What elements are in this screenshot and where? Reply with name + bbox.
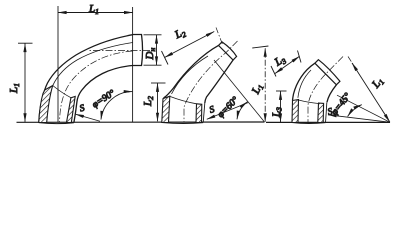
elbow3 wall inner line — [298, 70, 311, 98]
elbow2 radial line from vertex — [214, 60, 265, 122]
svg-text:L1: L1 — [8, 83, 21, 94]
elbow3 centerline dash-dot — [308, 57, 343, 123]
svg-text:L3: L3 — [271, 107, 284, 118]
elbow1 bottom face curve — [39, 123, 74, 124]
dimension L3 slant: left tick — [271, 66, 276, 77]
dimension L2 vertical line with arrows — [157, 83, 159, 121]
elbow3 S leader — [328, 115, 390, 123]
dimension L1 elbow2: top tick — [252, 46, 268, 48]
dimension L1 elbow3 line with arrows — [352, 63, 390, 122]
elbow1 inner arc — [74, 66, 133, 123]
elbow3 bore inner edge line — [326, 103, 327, 123]
elbow3 left wall band (hatched) — [292, 100, 299, 123]
elbow3 end face band — [315, 60, 340, 85]
dimension L1 left: line with arrows — [24, 44, 26, 122]
dimension L1 top: line and arrows — [58, 12, 133, 14]
svg-text:L1: L1 — [88, 3, 99, 16]
dimension D_H line with arrows — [156, 35, 158, 65]
elbow2 wall inner line — [172, 56, 209, 94]
elbow2 bottom face curve — [162, 122, 203, 125]
elbow2 outer arc — [164, 45, 219, 98]
baseline (bottom face plane extension, elbow 1+2) — [17, 121, 265, 123]
elbow2 left wall band (hatched) — [162, 96, 170, 122]
svg-text:L3: L3 — [272, 53, 288, 70]
elbow2 centerline dash-dot — [184, 41, 238, 122]
elbow1 angle arc (phi=90) with arrows — [101, 92, 132, 120]
svg-text:S: S — [208, 105, 216, 116]
elbow3 right wall band (hatched) — [318, 103, 324, 123]
dimension L3 slant line with arrows — [275, 56, 300, 73]
elbow3 cut back edge — [299, 100, 319, 104]
dimension L2 vertical: top tick — [151, 82, 166, 84]
dimension L2 slant: right tick (dash-dot) — [216, 28, 223, 46]
elbow1 wall inner line (thin arc near outer) — [53, 43, 133, 86]
elbow1 cut back edge across bore — [53, 86, 71, 98]
dimension L3 slant: right tick — [298, 51, 302, 63]
vertical extension line right end (x=132.6) — [132, 7, 134, 122]
dimension L3 vertical line with arrows — [280, 91, 282, 122]
elbow1 left wall band (hatched) — [39, 86, 53, 123]
svg-text:φ=90°: φ=90° — [90, 88, 117, 111]
svg-text:L2: L2 — [142, 96, 155, 107]
svg-text:L1: L1 — [249, 82, 265, 97]
elbow3 radial line from vertex — [337, 95, 390, 122]
elbow2 inner arc — [205, 60, 233, 103]
dimension L3 vertical: top tick — [276, 90, 287, 92]
elbow1 right end face rectangle — [133, 35, 143, 66]
dimension L1 elbow2 line with arrows — [264, 48, 266, 122]
elbow2 cut back edge — [170, 96, 197, 104]
elbow1 outer arc — [39, 35, 133, 123]
svg-text:L1: L1 — [369, 75, 386, 92]
svg-text:S: S — [79, 103, 86, 114]
svg-text:L2: L2 — [172, 26, 188, 43]
dimension L2 slant: left tick — [162, 51, 169, 65]
dimension L2 slant line with arrows — [165, 32, 215, 58]
dimension D_H: extension ticks — [144, 34, 162, 36]
elbow1 centerline dash-dot arc — [88, 50, 150, 52]
elbow1 S leader — [75, 114, 100, 121]
baseline elbow 3 — [266, 121, 390, 123]
elbow3 bottom face curve — [292, 122, 326, 125]
elbow1 right wall band (hatched) — [67, 96, 76, 122]
dimension L1 left: top tick — [18, 42, 33, 44]
elbow2 angle arc with arrows — [237, 102, 247, 120]
elbow3 inner arc — [327, 85, 337, 103]
dimension L1 elbow3: top tick (dash-dot) — [348, 57, 357, 70]
elbow3 angle arc with arrows — [348, 105, 362, 117]
vertical extension line through elbow 1 (x=58) — [57, 6, 59, 122]
elbow2 right wall band (hatched) — [196, 104, 202, 123]
svg-text:Dн: Dн — [144, 48, 157, 61]
elbow2 S leader — [207, 103, 248, 120]
elbow3 outer arc — [293, 63, 315, 100]
elbow2 bore inner edge line — [203, 103, 205, 123]
elbow2 end face band — [219, 42, 237, 60]
